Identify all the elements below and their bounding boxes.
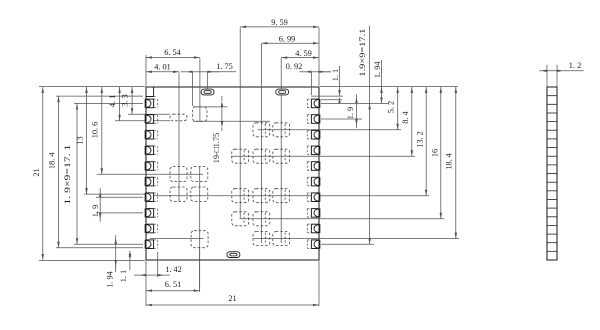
castellated pad R10	[307, 240, 320, 249]
side view castellation rungs	[547, 96, 557, 252]
castellated pad L7	[145, 193, 158, 202]
castellated pad R7	[307, 193, 320, 202]
svg-text:13. 2: 13. 2	[415, 131, 424, 148]
svg-text:1.9×9=17.1: 1.9×9=17.1	[358, 29, 367, 77]
component grid 2x2 left	[170, 167, 208, 202]
svg-text:19-□1.75: 19-□1.75	[212, 133, 221, 164]
svg-text:1. 75: 1. 75	[216, 62, 233, 71]
dimension 13.2 right	[415, 87, 427, 196]
dimension 1.75 top	[181, 62, 236, 73]
svg-text:13: 13	[75, 136, 84, 144]
dimension 21 left	[32, 87, 44, 260]
oval slot top-left	[201, 89, 214, 95]
component pad row 3 right	[232, 189, 290, 203]
corner pad top-left (pin 1)	[146, 87, 156, 97]
component outline bottom-left (6.51 col)	[191, 231, 208, 248]
dimension 13 left	[75, 87, 87, 194]
dimension 6.99 top	[261, 35, 319, 45]
dimension 6.51 bottom	[146, 280, 200, 292]
dimension 21 bottom	[146, 294, 319, 306]
dimension 10.6 left	[91, 87, 103, 174]
component pad row 4 right	[232, 212, 270, 226]
dimension 1.42 bottom	[134, 265, 182, 276]
oval slot top-right	[276, 89, 289, 95]
dimension 18.4 left	[48, 96, 60, 248]
svg-text:1. 1: 1. 1	[119, 270, 128, 282]
svg-text:4. 59: 4. 59	[295, 49, 312, 58]
dimension 1.2 side view	[540, 61, 584, 86]
svg-text:16: 16	[430, 149, 439, 157]
dimension 1.9x9=17.1 right	[358, 26, 371, 244]
dimension 1.9 left	[91, 188, 102, 222]
note 19-sq-1.75 pad size dimension	[212, 96, 223, 163]
dimension 5.2 right	[386, 87, 398, 130]
dimension 18.4 right	[444, 87, 457, 239]
dimension 16 right	[430, 87, 442, 219]
oval slot bottom	[227, 252, 240, 258]
component pad row 5 right	[253, 232, 290, 246]
dimension 8.4 right	[401, 87, 413, 156]
dimension 1.1 bottom-left	[119, 251, 131, 282]
dimension 4.01 top	[146, 62, 179, 73]
dimension 4.1 left	[108, 87, 121, 121]
component pad row 2 right	[232, 149, 290, 163]
svg-text:1. 9: 1. 9	[346, 107, 355, 119]
castellated pad R2	[307, 115, 320, 124]
dimension 1.9 right	[346, 94, 358, 128]
castellated pad L6	[145, 177, 158, 186]
svg-text:1. 1: 1. 1	[331, 69, 340, 81]
svg-text:6. 51: 6. 51	[165, 280, 182, 289]
svg-text:1. 94: 1. 94	[373, 61, 382, 78]
dimension 1.9x9=17.1 left	[63, 103, 78, 244]
svg-text:4. 1: 4. 1	[108, 95, 117, 107]
castellated pad R5	[307, 162, 320, 171]
svg-text:1. 42: 1. 42	[165, 265, 182, 274]
svg-text:8. 4: 8. 4	[401, 110, 410, 123]
castellated pad L9	[145, 224, 158, 233]
dimension 6.54 top	[146, 48, 200, 59]
module body outline	[146, 87, 319, 260]
castellated pad L4	[145, 146, 158, 155]
castellated pad R4	[307, 146, 320, 155]
svg-text:1. 2: 1. 2	[569, 61, 581, 70]
castellated pad L2	[145, 115, 158, 124]
dimension 1.94 bottom-left	[105, 235, 117, 288]
dimension 0.92 top	[286, 62, 331, 73]
castellated pad L10	[145, 240, 158, 249]
svg-text:1. 94: 1. 94	[105, 270, 114, 287]
castellated pad R1	[307, 99, 320, 108]
dimension 4.59 top	[281, 49, 319, 59]
component outline U-A (6.54 col top)	[193, 107, 207, 121]
svg-text:9. 59: 9. 59	[271, 18, 288, 27]
side view body	[547, 87, 557, 260]
castellated pad L5	[145, 162, 158, 171]
castellated pad R9	[307, 224, 320, 233]
castellated pad L8	[145, 209, 158, 218]
dimension 3.3 left	[120, 87, 133, 114]
castellated pad R8	[307, 209, 320, 218]
castellated pad L1	[145, 99, 158, 108]
svg-text:0. 92: 0. 92	[286, 62, 303, 71]
component outline col-A flat (3.3/4.1 ref)	[170, 114, 187, 121]
svg-text:1. 9: 1. 9	[91, 205, 100, 217]
castellated pad R3	[307, 130, 320, 139]
dimension 1.1 top-right	[331, 66, 341, 104]
svg-text:6. 99: 6. 99	[279, 35, 296, 44]
svg-text:21: 21	[228, 294, 236, 303]
svg-text:1. 9×9=17. 1: 1. 9×9=17. 1	[63, 145, 72, 205]
castellated pad R6	[307, 177, 320, 186]
svg-text:6. 54: 6. 54	[164, 48, 181, 57]
svg-text:21: 21	[32, 168, 41, 176]
svg-text:3. 3: 3. 3	[120, 94, 129, 106]
dimension 1.94 top-right	[373, 60, 383, 103]
castellated pad L3	[145, 130, 158, 139]
svg-text:4. 01: 4. 01	[154, 62, 171, 71]
svg-text:5. 2: 5. 2	[386, 101, 395, 113]
dimension 9.59 top	[240, 18, 319, 28]
svg-text:18. 4: 18. 4	[48, 152, 57, 169]
extension lines	[39, 28, 459, 307]
component pad row 1 right	[253, 123, 290, 137]
svg-text:10. 6: 10. 6	[91, 122, 100, 139]
svg-text:18. 4: 18. 4	[444, 152, 453, 169]
